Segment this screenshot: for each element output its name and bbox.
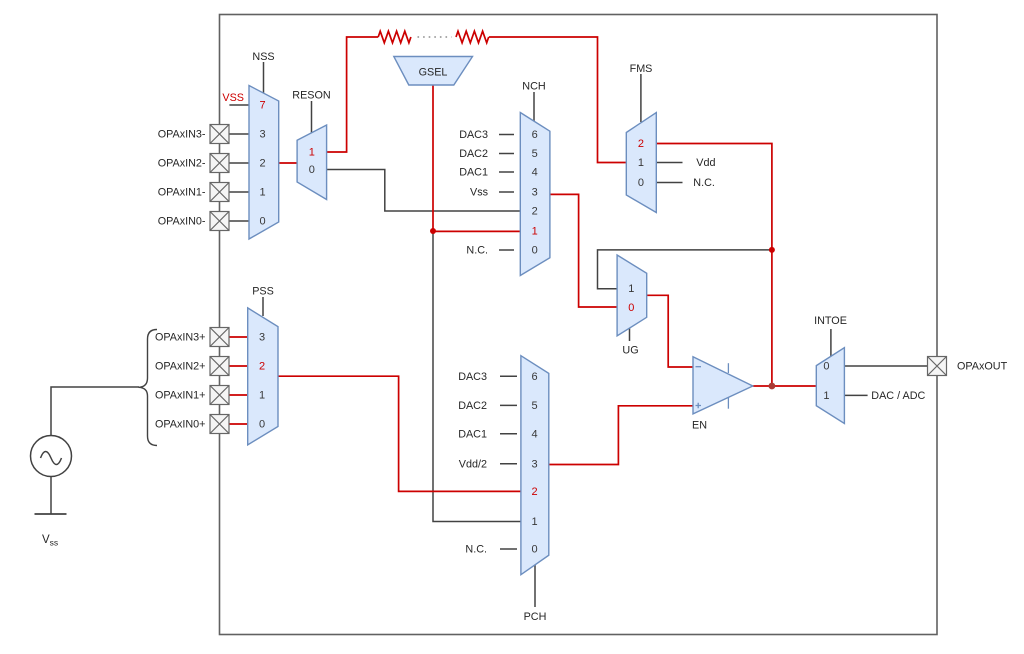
wire: RESON out0 to NCH in2: [327, 170, 521, 212]
junction node J3 (op-amp output): [769, 383, 776, 390]
svg-text:Vdd: Vdd: [696, 157, 715, 169]
pad OPAxIN1+: [210, 386, 229, 405]
svg-text:2: 2: [260, 158, 266, 170]
wire: FMS in0 stub to N.C.: [656, 182, 682, 184]
svg-text:0: 0: [259, 419, 265, 431]
pad OPAxIN2-: [210, 154, 229, 173]
wire red: PSS output to PCH in2: [278, 376, 521, 491]
svg-text:PSS: PSS: [252, 286, 274, 298]
mux UG: [617, 255, 647, 336]
dotted continuation between resistors: [418, 36, 452, 38]
svg-text:OPAxIN2+: OPAxIN2+: [155, 361, 206, 373]
svg-text:1: 1: [260, 187, 266, 199]
svg-text:GSEL: GSEL: [419, 67, 448, 79]
svg-text:Vss: Vss: [42, 534, 58, 548]
wire: pad OPAxIN3- to NSS in3: [229, 133, 249, 135]
svg-text:3: 3: [260, 129, 266, 141]
mux NCH: [520, 113, 550, 276]
wire: NCH in4 stub DAC1: [499, 171, 514, 173]
wire red: GSEL output down to node J1: [432, 85, 434, 231]
svg-text:6: 6: [532, 129, 538, 141]
wire: source to brace: [51, 387, 139, 436]
wire: FMS in1 stub to Vdd: [656, 162, 682, 164]
label stub UG: [629, 328, 631, 341]
wire red: PCH output to op-amp non-inverting input: [549, 406, 693, 465]
svg-text:2: 2: [531, 486, 537, 498]
svg-text:PCH: PCH: [524, 611, 547, 623]
svg-text:DAC1: DAC1: [458, 428, 487, 440]
pad OPAxIN3-: [210, 125, 229, 144]
wire: NCH in6 stub DAC3: [499, 134, 514, 136]
svg-text:DAC2: DAC2: [459, 148, 488, 160]
svg-text:1: 1: [532, 226, 538, 238]
svg-text:0: 0: [638, 177, 644, 189]
svg-text:Vss: Vss: [470, 187, 489, 199]
svg-text:NCH: NCH: [522, 81, 545, 93]
svg-text:5: 5: [531, 400, 537, 412]
svg-text:0: 0: [823, 361, 829, 373]
brace grouping OPAxIN+ pins: [139, 330, 158, 446]
svg-text:2: 2: [532, 206, 538, 218]
svg-text:0: 0: [531, 544, 537, 556]
svg-text:1: 1: [628, 283, 634, 295]
svg-text:1: 1: [309, 147, 315, 159]
wire: INTOE out0 to OPAxOUT pad: [844, 365, 928, 367]
wire: NCH in5 stub DAC2: [499, 153, 514, 155]
svg-text:0: 0: [628, 302, 634, 314]
pad OPAxIN1-: [210, 183, 229, 202]
svg-text:4: 4: [532, 167, 538, 179]
wire: PCH in6 stub DAC3: [500, 375, 517, 377]
label stub RESON: [311, 101, 313, 133]
wire: pad OPAxIN1- to NSS in1: [229, 191, 249, 193]
chip boundary rectangle: [220, 15, 938, 635]
svg-text:7: 7: [260, 100, 266, 112]
op-amp minus sign: [696, 366, 702, 368]
resistor R1 (feedback): [378, 31, 411, 43]
wire red: pad OPAxIN1+ to PSS in1: [229, 394, 248, 396]
pad OPAxIN0+: [210, 415, 229, 434]
svg-text:3: 3: [259, 332, 265, 344]
svg-text:NSS: NSS: [252, 51, 274, 63]
wire: PCH in5 stub DAC2: [500, 404, 517, 406]
label stub NSS: [263, 62, 265, 93]
svg-text:0: 0: [309, 164, 315, 176]
wire red: pad OPAxIN0+ to PSS in0: [229, 423, 248, 425]
resistor R2 (feedback): [456, 31, 489, 43]
svg-text:INTOE: INTOE: [814, 315, 847, 327]
wire red: RESON out1 up to feedback ladder: [327, 37, 379, 152]
wire: NCH in0 stub N.C.: [499, 249, 514, 251]
svg-text:3: 3: [531, 458, 537, 470]
wire red: UG output to op-amp inverting input: [647, 295, 693, 367]
wire red: node J2 down to node J3: [771, 250, 773, 386]
label stub INTOE: [830, 329, 832, 356]
label stub FMS: [640, 74, 642, 122]
svg-text:OPAxIN2-: OPAxIN2-: [158, 158, 206, 170]
wire red: NCH output to UG in0: [550, 194, 617, 307]
svg-text:DAC3: DAC3: [459, 129, 488, 141]
svg-text:EN: EN: [692, 420, 707, 432]
wire: PCH in3 stub Vdd/2: [500, 463, 517, 465]
svg-text:1: 1: [259, 390, 265, 402]
svg-text:OPAxIN0+: OPAxIN0+: [155, 419, 206, 431]
svg-text:1: 1: [531, 516, 537, 528]
svg-text:OPAxIN3+: OPAxIN3+: [155, 332, 206, 344]
label stub NCH: [533, 92, 535, 122]
svg-text:5: 5: [532, 148, 538, 160]
svg-text:DAC2: DAC2: [458, 400, 487, 412]
svg-text:RESON: RESON: [292, 90, 330, 102]
svg-text:DAC3: DAC3: [458, 371, 487, 383]
svg-text:FMS: FMS: [630, 63, 653, 75]
op-amp enable tick top: [727, 363, 729, 373]
svg-text:UG: UG: [622, 345, 638, 357]
wire red: NSS output to RESON input: [279, 162, 297, 164]
junction node J1: [430, 228, 436, 234]
svg-text:OPAxIN3-: OPAxIN3-: [158, 129, 206, 141]
svg-text:1: 1: [823, 390, 829, 402]
wire: pad OPAxIN2- to NSS in2: [229, 162, 249, 164]
op-amp plus sign: [696, 403, 702, 409]
svg-text:6: 6: [531, 371, 537, 383]
wire: NCH in3 stub Vss: [499, 191, 514, 193]
mux PCH: [521, 356, 549, 575]
pad OPAxIN0-: [210, 212, 229, 231]
trapezoid GSEL: [394, 57, 473, 86]
wire: source to ground: [50, 477, 52, 515]
pad OPAxOUT: [928, 357, 947, 376]
svg-text:1: 1: [638, 157, 644, 169]
pad OPAxIN2+: [210, 357, 229, 376]
AC source V1: [31, 436, 72, 477]
svg-text:OPAxIN1+: OPAxIN1+: [155, 390, 206, 402]
svg-text:N.C.: N.C.: [466, 245, 488, 257]
pad OPAxIN3+: [210, 328, 229, 347]
ground: [35, 513, 67, 515]
wire: PCH in4 stub DAC1: [500, 433, 517, 435]
mux INTOE: [816, 348, 844, 424]
mux NSS: [249, 86, 279, 240]
mux FMS: [626, 113, 656, 213]
svg-text:N.C.: N.C.: [465, 544, 487, 556]
wire red: pad OPAxIN2+ to PSS in2: [229, 365, 248, 367]
wire: node J2 horizontal to UG in1: [598, 250, 772, 289]
wire red: op-amp output to INTOE input: [753, 385, 817, 387]
wire red: node J1 to NCH in1: [433, 230, 520, 232]
svg-text:OPAxIN1-: OPAxIN1-: [158, 187, 206, 199]
wire red: pad OPAxIN3+ to PSS in3: [229, 336, 248, 338]
svg-text:0: 0: [532, 245, 538, 257]
svg-text:N.C.: N.C.: [693, 177, 715, 189]
label stub PSS: [262, 297, 264, 316]
op-amp enable tick bottom: [727, 397, 729, 409]
wire: VSS stub to NSS in7: [229, 104, 249, 106]
wire red: FMS in2 to node J2: [656, 144, 772, 250]
svg-text:Vdd/2: Vdd/2: [459, 458, 487, 470]
svg-text:3: 3: [532, 187, 538, 199]
svg-text:OPAxOUT: OPAxOUT: [957, 361, 1008, 373]
wire: node J1 down to PCH in1: [433, 233, 521, 522]
op-amp EN: [693, 357, 753, 414]
svg-text:0: 0: [260, 216, 266, 228]
wire red: ladder to FMS output port: [489, 37, 626, 163]
svg-text:2: 2: [638, 138, 644, 150]
svg-text:2: 2: [259, 361, 265, 373]
label stub PCH: [534, 565, 536, 607]
wire: PCH in0 stub N.C.: [500, 548, 517, 550]
svg-text:VSS: VSS: [222, 92, 244, 104]
svg-text:DAC1: DAC1: [459, 167, 488, 179]
svg-text:DAC / ADC: DAC / ADC: [871, 390, 925, 402]
mux PSS: [248, 308, 278, 445]
wire: INTOE out1 stub to DAC/ADC: [844, 394, 867, 396]
junction node J2: [769, 247, 775, 253]
svg-text:OPAxIN0-: OPAxIN0-: [158, 216, 206, 228]
wire: pad OPAxIN0- to NSS in0: [229, 220, 249, 222]
mux RESON: [297, 125, 327, 200]
svg-text:4: 4: [531, 428, 537, 440]
